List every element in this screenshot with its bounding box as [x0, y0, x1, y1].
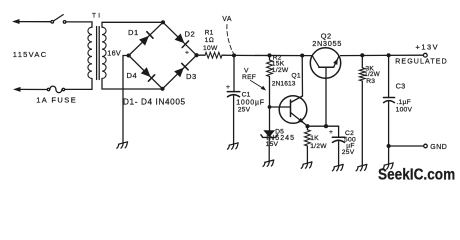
- svg-text:1K: 1K: [310, 135, 319, 142]
- diode D4: [141, 67, 151, 77]
- terminal: +13V output: [423, 53, 427, 57]
- node: bridge right corner (+): [194, 53, 198, 57]
- svg-text:15V: 15V: [266, 141, 279, 148]
- resistor R2 15K 1/2W: [267, 60, 273, 76]
- wire: Q2 base vertical: [325, 67, 327, 126]
- capacitor C2 500uF 25V: [338, 126, 340, 137]
- ground: C2: [332, 164, 343, 170]
- svg-text:115VAC: 115VAC: [13, 50, 48, 59]
- node Q1 collector top: [300, 53, 304, 57]
- node: R3 top: [360, 53, 364, 57]
- ground: 1K: [301, 162, 312, 168]
- transformer T1 primary winding: [88, 27, 92, 78]
- wire: AC line bottom with arrow: [13, 87, 21, 92]
- transistor Q1 2N1613: [279, 96, 307, 124]
- svg-text:100V: 100V: [396, 107, 413, 114]
- svg-text:D2: D2: [185, 30, 196, 39]
- wire: GND junction to terminal: [389, 145, 424, 147]
- svg-text:2N1613: 2N1613: [272, 81, 296, 88]
- wire: switch to transformer primary top: [66, 22, 92, 27]
- svg-text:C3: C3: [396, 82, 406, 91]
- svg-text:GND: GND: [430, 144, 447, 151]
- wire: VA rail to R2 node to Q1 collector node: [234, 54, 312, 56]
- svg-text:25V: 25V: [342, 149, 355, 156]
- ground: C3: [382, 163, 393, 169]
- diode D2: [175, 34, 185, 44]
- wire: secondary bottom to bridge bottom corner: [102, 79, 163, 90]
- ground: C1: [227, 143, 238, 149]
- svg-text:+: +: [185, 50, 189, 57]
- svg-text:1/2W: 1/2W: [310, 143, 327, 150]
- node: bridge left corner: [127, 53, 131, 57]
- ground: D5: [263, 160, 274, 166]
- capacitor C1 1000uF 25V: [233, 55, 235, 91]
- svg-text:C1: C1: [242, 92, 251, 99]
- ground: bridge: [117, 142, 128, 148]
- svg-text:16V: 16V: [107, 49, 121, 58]
- svg-text:1/2W: 1/2W: [272, 67, 289, 74]
- node: GND junction: [387, 144, 391, 148]
- svg-text:25V: 25V: [238, 107, 251, 114]
- node: bridge top corner: [161, 20, 165, 24]
- wire: secondary top to bridge top corner: [102, 22, 163, 27]
- resistor R1 1ohm 10W: [197, 54, 206, 56]
- svg-text:.1µF: .1µF: [396, 99, 411, 106]
- svg-text:TI: TI: [92, 13, 102, 20]
- wire: fuse to transformer primary bottom: [65, 79, 92, 90]
- svg-text:R1: R1: [205, 29, 214, 36]
- svg-text:D1: D1: [128, 28, 139, 37]
- wire: bridge left corner to ground: [123, 56, 129, 144]
- svg-text:REGULATED: REGULATED: [395, 58, 448, 65]
- node: bridge bottom corner: [160, 87, 164, 91]
- svg-text:D3: D3: [186, 72, 197, 81]
- fuse F1 1A: [47, 88, 49, 90]
- svg-text:10W: 10W: [203, 45, 218, 52]
- svg-text:VA: VA: [222, 16, 232, 23]
- svg-text:+: +: [226, 84, 230, 91]
- resistor 1K 1/2W: [306, 126, 308, 130]
- wire: Q2 emitter to +13V terminal: [341, 54, 424, 56]
- svg-text:SeekIC.com: SeekIC.com: [378, 167, 455, 184]
- transistor Q2 2N3055: [310, 48, 340, 78]
- capacitor C3 .1uF 100V: [388, 55, 390, 97]
- svg-text:D4: D4: [127, 71, 138, 80]
- wire: emitter node to C2, Q2 base junction: [308, 125, 339, 127]
- node R2 top: [267, 53, 271, 57]
- wire: AC line top with arrow: [12, 19, 20, 24]
- node: C3 top: [387, 53, 391, 57]
- bridge rectifier diamond wires: [129, 22, 197, 89]
- svg-text:R3: R3: [366, 78, 375, 85]
- V REF arrow: [251, 81, 264, 89]
- ground: R3: [356, 164, 367, 170]
- diode D1: [139, 36, 149, 46]
- svg-text:2N3055: 2N3055: [312, 39, 342, 48]
- svg-text:Q1: Q1: [291, 73, 300, 80]
- VA leader line: [227, 25, 233, 54]
- transformer T1 secondary winding: [102, 27, 106, 78]
- zener D5 1N5245: [269, 107, 271, 130]
- diode D3: [174, 68, 184, 78]
- terminal: GND: [424, 144, 428, 148]
- svg-text:+13V: +13V: [416, 43, 440, 52]
- wire: base node to Q1: [270, 106, 291, 108]
- svg-text:D1- D4 IN4005: D1- D4 IN4005: [123, 97, 186, 106]
- switch S1: [51, 21, 54, 24]
- svg-text:+: +: [329, 129, 333, 136]
- transformer T1 core: [96, 27, 98, 80]
- node: Q1 emitter: [305, 124, 309, 128]
- node: Q2 base: [324, 124, 328, 128]
- svg-text:1Ω: 1Ω: [205, 37, 214, 44]
- svg-text:1A FUSE: 1A FUSE: [36, 95, 77, 104]
- resistor R3 3K 1/2W: [361, 55, 363, 68]
- node: Q1 base / D5: [268, 105, 272, 109]
- svg-text:REF: REF: [242, 74, 256, 81]
- node VA: [232, 53, 236, 57]
